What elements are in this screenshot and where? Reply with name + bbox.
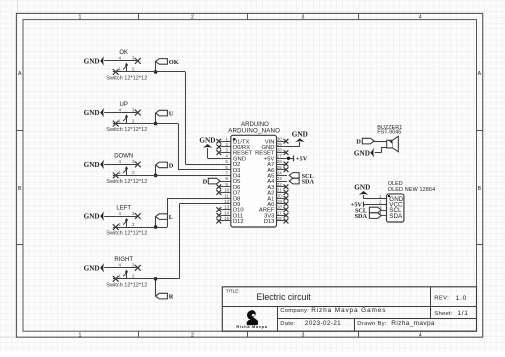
svg-text:13: 13 bbox=[224, 205, 230, 210]
ground GND at OLED pin 1 bbox=[354, 183, 386, 198]
svg-text:28: 28 bbox=[277, 148, 283, 153]
svg-text:Switch 12*12*12: Switch 12*12*12 bbox=[106, 282, 147, 288]
net flag SCL at OLED pin 3 bbox=[355, 207, 381, 214]
svg-text:GND: GND bbox=[354, 149, 370, 157]
pin 24 A5 bbox=[267, 171, 287, 180]
svg-text:2023-02-21: 2023-02-21 bbox=[305, 320, 341, 327]
svg-text:Sheet:: Sheet: bbox=[434, 311, 453, 317]
svg-text:A: A bbox=[18, 71, 22, 77]
wire stem to net flag D bbox=[155, 165, 157, 176]
svg-text:4: 4 bbox=[419, 332, 422, 338]
svg-text:R: R bbox=[169, 294, 174, 301]
nc marker pin 30 bbox=[284, 139, 289, 144]
power +5V at Arduino pin 27 bbox=[287, 155, 308, 162]
svg-text:21: 21 bbox=[277, 188, 283, 193]
nc marker pin 10 bbox=[216, 190, 221, 195]
svg-text:24: 24 bbox=[277, 171, 283, 176]
pin 23 A4 bbox=[267, 176, 287, 185]
svg-text:3: 3 bbox=[302, 15, 305, 21]
pin 20 A1 bbox=[267, 193, 287, 202]
nc marker pin 2 bbox=[216, 145, 221, 150]
nc marker pin 1 bbox=[216, 139, 221, 144]
wire OK button to D2 bbox=[113, 71, 186, 73]
svg-text:20: 20 bbox=[277, 193, 283, 198]
pin 15 D12 bbox=[220, 216, 243, 225]
junction on RIGHT wire bbox=[154, 277, 158, 281]
pin 30 VIN bbox=[265, 136, 287, 145]
net flag D at buzzer bbox=[356, 138, 374, 145]
svg-text:12: 12 bbox=[224, 199, 230, 204]
svg-text:Switch 12*12*12: Switch 12*12*12 bbox=[106, 127, 147, 133]
svg-text:ARDUINO_NANO: ARDUINO_NANO bbox=[228, 127, 280, 134]
svg-text:D: D bbox=[203, 179, 208, 186]
wire LEFT button to D8 bbox=[113, 227, 167, 229]
svg-text:Date:: Date: bbox=[280, 321, 295, 327]
pin 4 GND bbox=[220, 153, 246, 162]
nc marker pin 15 bbox=[216, 219, 221, 224]
svg-text:SDA: SDA bbox=[355, 213, 368, 220]
svg-text:FST-9045: FST-9045 bbox=[377, 129, 401, 135]
nc marker pin 14 bbox=[216, 213, 221, 218]
svg-text:D12: D12 bbox=[233, 219, 244, 225]
svg-text:30: 30 bbox=[277, 136, 283, 141]
title block bbox=[222, 287, 476, 331]
svg-text:1: 1 bbox=[79, 15, 82, 21]
svg-text:Rizha Mavpa: Rizha Mavpa bbox=[236, 324, 267, 329]
nc marker pin 21 bbox=[284, 190, 289, 195]
svg-text:14: 14 bbox=[224, 210, 230, 215]
net flag D bbox=[156, 162, 174, 169]
svg-text:D13: D13 bbox=[264, 219, 275, 225]
svg-text:OK: OK bbox=[169, 59, 179, 66]
pin 19 A0 bbox=[267, 199, 287, 208]
pin 11 D8 bbox=[220, 193, 240, 202]
nc marker pin 17 bbox=[284, 213, 289, 218]
IC ARDUINO_NANO (Arduino Nano) bbox=[216, 122, 288, 227]
OLED pin 2 VCC bbox=[379, 200, 403, 209]
pin 3 RESET bbox=[220, 148, 253, 157]
svg-text:2: 2 bbox=[191, 15, 194, 21]
pin 5 D2 bbox=[220, 159, 240, 168]
svg-text:OLED NEW 12864: OLED NEW 12864 bbox=[388, 187, 436, 193]
OLED pin 1 GND bbox=[379, 194, 404, 203]
svg-text:25: 25 bbox=[277, 165, 283, 170]
svg-text:REV:: REV: bbox=[434, 296, 449, 302]
svg-text:27: 27 bbox=[277, 153, 283, 158]
pin 28 RESET bbox=[255, 148, 287, 157]
pin 21 A2 bbox=[267, 188, 287, 197]
svg-text:18: 18 bbox=[277, 205, 283, 210]
pin 6 D3 bbox=[220, 165, 240, 174]
svg-text:Switch 12*12*12: Switch 12*12*12 bbox=[106, 76, 147, 82]
net flag R bbox=[156, 293, 174, 300]
svg-text:Rizha Mavpa Games: Rizha Mavpa Games bbox=[311, 307, 386, 314]
svg-text:10: 10 bbox=[224, 188, 230, 193]
pin 1 D1/TX bbox=[220, 136, 249, 145]
buzzer BUZZER1 FST-9045 bbox=[377, 125, 402, 152]
switch OK (Switch 12*12*12) bbox=[104, 50, 147, 81]
svg-text:Company:: Company: bbox=[280, 308, 309, 314]
svg-text:15: 15 bbox=[224, 216, 230, 221]
pin 2 D0/RX bbox=[220, 142, 250, 151]
svg-text:GND: GND bbox=[292, 131, 308, 139]
pin 13 D10 bbox=[220, 205, 243, 214]
svg-text:GND: GND bbox=[84, 109, 100, 117]
nc marker pin 20 bbox=[284, 196, 289, 201]
svg-text:GND: GND bbox=[84, 161, 100, 169]
nc marker pin 22 bbox=[284, 184, 289, 189]
svg-text:1/1: 1/1 bbox=[457, 310, 468, 317]
wire stem to net flag OK bbox=[155, 61, 157, 72]
svg-text:29: 29 bbox=[277, 142, 283, 147]
svg-text:D: D bbox=[356, 139, 361, 146]
svg-text:Drawn By:: Drawn By: bbox=[357, 321, 387, 327]
svg-text:16: 16 bbox=[277, 216, 283, 221]
nc marker pin 26 bbox=[284, 162, 289, 167]
pin 22 A3 bbox=[267, 182, 287, 191]
pin 12 D9 bbox=[220, 199, 240, 208]
svg-text:Rizha_mavpa: Rizha_mavpa bbox=[391, 320, 435, 327]
switch LEFT (Switch 12*12*12) bbox=[104, 205, 147, 236]
svg-text:L: L bbox=[169, 214, 173, 221]
nc marker pin 9 bbox=[216, 184, 221, 189]
svg-text:19: 19 bbox=[277, 199, 283, 204]
svg-text:Electric circuit: Electric circuit bbox=[257, 292, 312, 302]
pin 18 AREF bbox=[259, 205, 287, 214]
svg-text:11: 11 bbox=[224, 193, 229, 198]
svg-text:D: D bbox=[169, 162, 174, 169]
nc marker pin 13 bbox=[216, 207, 221, 212]
switch DOWN (Switch 12*12*12) bbox=[104, 154, 147, 185]
svg-text:SDA: SDA bbox=[302, 179, 315, 186]
nc marker pin 18 bbox=[284, 207, 289, 212]
junction on LEFT wire bbox=[154, 225, 158, 229]
svg-text:GND: GND bbox=[354, 183, 370, 191]
wire stem to net flag L bbox=[155, 217, 157, 228]
wire UP button to D3 bbox=[113, 123, 178, 125]
pin 16 D13 bbox=[264, 216, 287, 225]
ground GND at switch UP bbox=[84, 108, 105, 118]
wire DOWN button to D4 bbox=[113, 175, 220, 177]
svg-text:4: 4 bbox=[419, 15, 422, 21]
ground GND at switch OK bbox=[84, 56, 105, 66]
ground GND at Arduino pin 29 bbox=[287, 131, 308, 147]
svg-text:1: 1 bbox=[79, 332, 82, 338]
svg-text:SDA: SDA bbox=[389, 213, 403, 220]
svg-text:1.0: 1.0 bbox=[456, 295, 467, 302]
switch RIGHT (Switch 12*12*12) bbox=[104, 257, 147, 288]
switch UP (Switch 12*12*12) bbox=[104, 102, 147, 133]
pin 9 D6 bbox=[220, 182, 240, 191]
wire RIGHT button to D9 bbox=[113, 278, 180, 280]
ground GND at switch LEFT bbox=[84, 211, 105, 221]
junction on DOWN wire bbox=[154, 174, 158, 178]
svg-text:Switch 12*12*12: Switch 12*12*12 bbox=[106, 231, 147, 237]
svg-text:B: B bbox=[18, 186, 22, 192]
svg-text:TITLE:: TITLE: bbox=[226, 289, 240, 294]
junction on UP wire bbox=[154, 122, 158, 126]
junction on OK wire bbox=[154, 70, 158, 74]
net flag SDA at OLED pin 4 bbox=[355, 213, 382, 220]
wire stem to net flag R bbox=[155, 279, 157, 296]
OLED pin 4 SDA bbox=[379, 211, 403, 220]
pin 17 3V3 bbox=[264, 210, 287, 219]
svg-text:DOWN: DOWN bbox=[114, 154, 133, 160]
wire buzzer pin 2 to ground bbox=[375, 147, 387, 152]
ground GND at Arduino pin 4 bbox=[199, 136, 220, 158]
nc marker pin 3 bbox=[216, 150, 221, 155]
svg-text:26: 26 bbox=[277, 159, 283, 164]
logo Rizha Mavpa bbox=[236, 310, 267, 329]
OLED pin 3 SCL bbox=[379, 205, 402, 214]
svg-text:GND: GND bbox=[84, 264, 100, 272]
svg-text:2: 2 bbox=[191, 332, 194, 338]
nc marker pin 19 bbox=[284, 202, 289, 207]
svg-text:3: 3 bbox=[302, 332, 305, 338]
svg-text:22: 22 bbox=[277, 182, 283, 187]
nc marker pin 16 bbox=[284, 219, 289, 224]
ground GND at buzzer bbox=[354, 148, 374, 158]
svg-text:GND: GND bbox=[84, 58, 100, 66]
pin 7 D4 bbox=[220, 171, 241, 180]
pin 25 A6 bbox=[267, 165, 287, 174]
net flag D at Arduino pin 8 (D5) bbox=[203, 178, 221, 185]
net flag SDA at Arduino pin 23 (A4) bbox=[289, 178, 314, 185]
svg-text:A: A bbox=[478, 71, 482, 77]
pin 26 A7 bbox=[267, 159, 287, 168]
net flag SCL at Arduino pin 24 (A5) bbox=[289, 173, 313, 180]
ground GND at switch RIGHT bbox=[84, 263, 105, 273]
svg-text:17: 17 bbox=[277, 210, 283, 215]
pin 10 D7 bbox=[220, 188, 240, 197]
svg-text:GND: GND bbox=[84, 213, 100, 221]
svg-text:B: B bbox=[478, 186, 482, 192]
svg-text:GND: GND bbox=[199, 136, 215, 144]
svg-text:U: U bbox=[169, 111, 174, 118]
display OLED (OLED NEW 12864) bbox=[379, 181, 435, 222]
svg-text:23: 23 bbox=[277, 176, 283, 181]
wire stem to net flag U bbox=[155, 113, 157, 124]
nc marker pin 28 bbox=[284, 150, 289, 155]
pin 27 +5V bbox=[264, 153, 287, 162]
power +5V at OLED pin 2 bbox=[351, 202, 387, 209]
pin 14 D11 bbox=[220, 210, 243, 219]
ground GND at switch DOWN bbox=[84, 160, 105, 170]
net flag OK bbox=[156, 59, 179, 66]
pin 29 GND bbox=[262, 142, 287, 151]
net flag L bbox=[156, 214, 173, 221]
nc marker pin 25 bbox=[284, 167, 289, 172]
svg-text:RIGHT: RIGHT bbox=[114, 257, 133, 263]
wire D flag to buzzer pin 1 bbox=[374, 141, 387, 143]
net flag U bbox=[156, 110, 174, 117]
svg-text:Switch 12*12*12: Switch 12*12*12 bbox=[106, 179, 147, 185]
svg-text:+5V: +5V bbox=[296, 156, 308, 163]
pin 8 D5 bbox=[220, 176, 240, 185]
